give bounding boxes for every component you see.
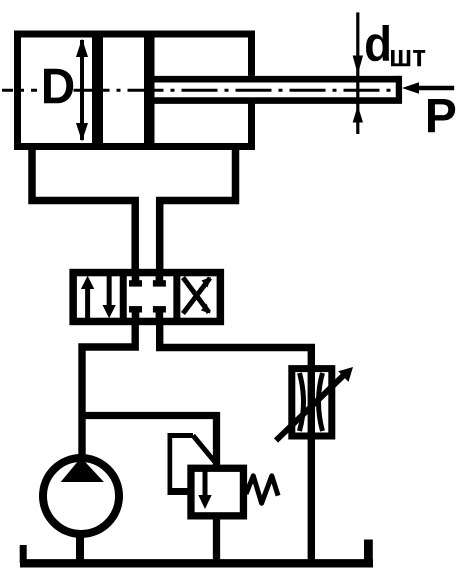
label P — [428, 99, 455, 132]
valve position 2 closed port top-left — [129, 274, 142, 287]
valve divider left — [120, 272, 127, 322]
relief valve flow arrow — [198, 470, 211, 509]
dimension d_sht line — [353, 12, 363, 134]
valve position 3 crossed arrows — [183, 277, 211, 314]
throttle left arc — [300, 373, 304, 431]
line from cylinder right port — [160, 148, 236, 272]
wire: valve left port to pump line — [82, 322, 135, 456]
label sht subscript — [391, 50, 425, 66]
line from cylinder left port — [32, 148, 135, 272]
valve position 2 closed port bottom-left — [129, 306, 142, 320]
valve position 1 up arrow — [81, 276, 94, 319]
relief valve body — [191, 468, 244, 516]
valve divider right — [173, 272, 180, 322]
tank line — [20, 559, 373, 567]
tank right tick — [364, 540, 373, 564]
valve position 1 down arrow — [103, 276, 116, 319]
valve V1 body — [73, 273, 220, 322]
piston right bar — [144, 37, 155, 144]
relief valve spring — [246, 476, 278, 503]
cylinder C1 body — [18, 34, 252, 147]
dimension D arrow — [76, 39, 88, 142]
valve position 2 closed port top-right — [153, 274, 166, 287]
wire: pump to tank — [76, 534, 84, 563]
wire: branch to relief valve — [82, 416, 217, 467]
throttle adjust arrow — [276, 367, 353, 441]
wire: relief valve to tank — [213, 516, 220, 563]
label D — [44, 69, 73, 103]
wire: valve right port to throttle — [160, 322, 312, 563]
tank left tick — [20, 545, 27, 563]
pump flow triangle — [61, 458, 104, 483]
relief valve pilot line — [168, 433, 215, 492]
force P arrow — [402, 82, 454, 94]
centerline (axis) main segment — [74, 89, 397, 92]
pump P1 circle — [43, 458, 119, 534]
throttle valve body — [292, 369, 332, 436]
valve position 2 closed port bottom-right — [153, 306, 166, 320]
centerline (axis) left segment — [2, 89, 37, 92]
label d — [366, 25, 389, 61]
piston rod — [155, 76, 403, 103]
throttle right arc — [319, 373, 323, 431]
piston left bar — [92, 37, 103, 144]
